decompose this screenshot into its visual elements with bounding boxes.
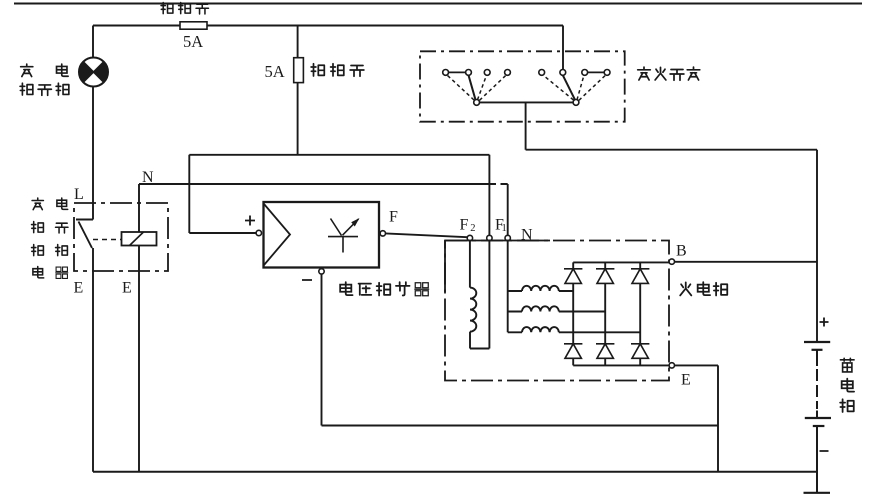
svg-text:E: E [681, 372, 691, 389]
svg-text:F: F [460, 217, 469, 234]
svg-text:5A: 5A [265, 62, 285, 81]
svg-text:1: 1 [502, 223, 507, 234]
svg-text:B: B [676, 243, 687, 260]
svg-text:E: E [74, 280, 84, 297]
svg-text:N: N [521, 227, 533, 244]
svg-text:N: N [142, 169, 154, 186]
svg-text:F: F [389, 209, 398, 226]
svg-text:E: E [122, 280, 132, 297]
svg-text:L: L [74, 186, 84, 203]
svg-text:2: 2 [470, 223, 475, 234]
svg-text:5A: 5A [183, 32, 203, 51]
